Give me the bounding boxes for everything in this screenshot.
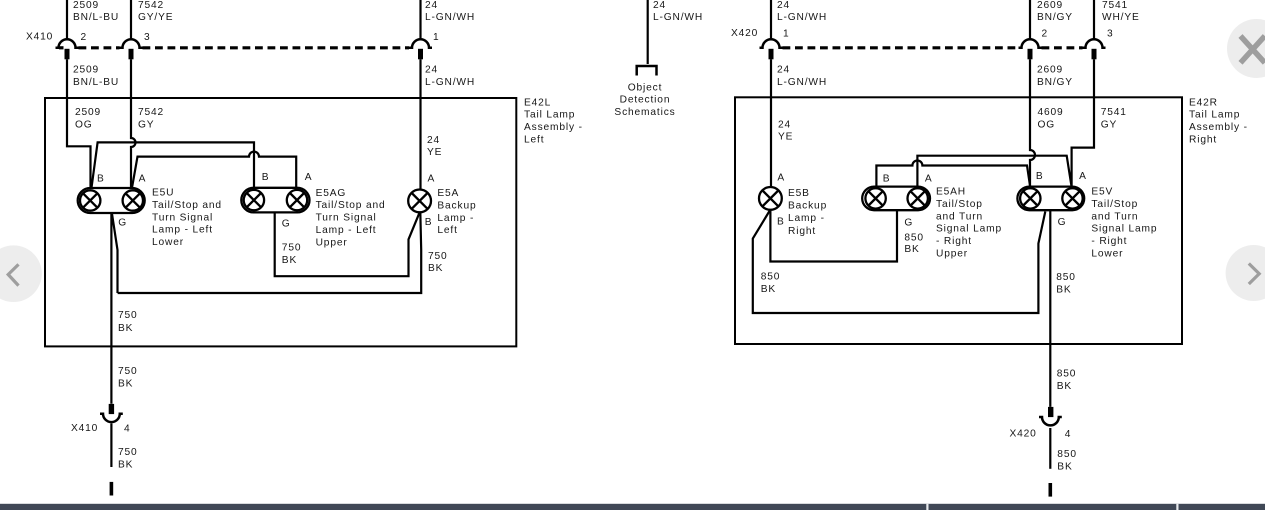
svg-text:4609: 4609	[1038, 107, 1064, 118]
svg-text:1: 1	[433, 32, 440, 43]
svg-text:A: A	[428, 174, 436, 185]
svg-text:24: 24	[425, 0, 438, 11]
svg-text:GY: GY	[138, 120, 154, 131]
svg-text:E5A: E5A	[437, 188, 459, 199]
svg-text:2509: 2509	[73, 0, 99, 11]
svg-text:Assembly -: Assembly -	[524, 122, 583, 133]
svg-text:Lower: Lower	[1091, 249, 1123, 260]
svg-text:BK: BK	[428, 263, 443, 274]
svg-text:E5AH: E5AH	[936, 187, 966, 198]
connector X420 pin 2 terminal	[1028, 49, 1033, 60]
connector X410 pin 3 terminal	[129, 49, 134, 60]
svg-text:24: 24	[777, 0, 790, 11]
svg-text:Schematics: Schematics	[614, 107, 675, 118]
svg-text:G: G	[1058, 217, 1067, 228]
svg-text:850: 850	[1057, 449, 1077, 460]
svg-text:Lamp - Left: Lamp - Left	[316, 225, 377, 236]
svg-text:750: 750	[118, 366, 138, 377]
svg-text:L-GN/WH: L-GN/WH	[777, 12, 827, 23]
svg-text:A: A	[139, 173, 147, 184]
svg-text:B: B	[425, 217, 433, 228]
svg-text:GY/YE: GY/YE	[138, 12, 173, 23]
svg-text:BN/L-BU: BN/L-BU	[73, 77, 119, 88]
wire circuit 7542 from top to X410 pin 3	[130, 0, 132, 40]
svg-text:BK: BK	[1057, 462, 1072, 473]
wire E5U pin G down through box to X410 pin 4	[110, 213, 112, 404]
connector X420 pin 1 terminal	[769, 49, 774, 60]
svg-text:2: 2	[81, 32, 88, 43]
svg-text:BK: BK	[118, 379, 133, 390]
svg-text:7541: 7541	[1102, 0, 1128, 11]
svg-text:750: 750	[118, 447, 138, 458]
svg-text:X420: X420	[1010, 428, 1037, 439]
svg-text:Left: Left	[524, 134, 544, 145]
svg-text:24: 24	[427, 135, 440, 146]
svg-text:Tail Lamp: Tail Lamp	[1189, 110, 1240, 121]
svg-text:850: 850	[761, 272, 781, 283]
svg-text:750: 750	[118, 310, 138, 321]
svg-text:BK: BK	[904, 244, 919, 255]
svg-text:Detection: Detection	[620, 95, 671, 106]
wire E5U pin G branch to ground bus	[112, 213, 118, 294]
svg-text:X410: X410	[71, 423, 98, 434]
connector X410 dashed boundary	[79, 46, 120, 49]
off-page connector to Object Detection Schematics	[637, 66, 657, 76]
svg-text:L-GN/WH: L-GN/WH	[425, 77, 475, 88]
lamp E5V Tail/Stop and Turn Signal Lamp - Right Lower	[1017, 187, 1084, 211]
svg-text:YE: YE	[427, 147, 442, 158]
svg-text:B: B	[1036, 171, 1044, 182]
svg-text:2: 2	[1042, 29, 1049, 40]
svg-text:E42L: E42L	[524, 97, 551, 108]
wire 4609 OG into box, hop, to E5V pin B	[1030, 59, 1035, 187]
wire 7541 GY into box to E5V pin A	[1072, 59, 1094, 187]
wire below X410 pin 4	[110, 424, 112, 468]
connector X410 pin 2 socket	[56, 39, 79, 48]
wire circuit 24 from top to X420 pin 1	[770, 0, 772, 40]
svg-text:Turn Signal: Turn Signal	[152, 212, 213, 223]
wire E5B pin B to E5AH pin G	[770, 210, 897, 262]
connector X420 pin 1 socket	[760, 39, 783, 48]
svg-text:X420: X420	[731, 28, 758, 39]
svg-text:B: B	[262, 172, 270, 183]
svg-text:Tail/Stop: Tail/Stop	[1091, 199, 1138, 210]
svg-text:A: A	[1079, 171, 1087, 182]
svg-text:BK: BK	[118, 460, 133, 471]
svg-text:A: A	[925, 174, 933, 185]
bottom toolbar	[0, 504, 1265, 510]
svg-text:Upper: Upper	[316, 237, 348, 248]
lamp E5AH Tail/Stop and Turn Signal Lamp - Right Upper	[862, 187, 930, 211]
svg-text:7542: 7542	[138, 107, 164, 118]
svg-text:GY: GY	[1101, 120, 1117, 131]
wire E5A pin B to E5AG pin G	[275, 212, 420, 276]
lamp E5U Tail/Stop and Turn Signal Lamp - Left Lower	[78, 188, 145, 213]
svg-text:24: 24	[653, 0, 666, 11]
svg-text:G: G	[118, 218, 127, 229]
svg-text:2509: 2509	[73, 65, 99, 76]
svg-text:B: B	[883, 174, 891, 185]
wire 24 YE into box to E5B pin A	[770, 59, 772, 187]
svg-text:2609: 2609	[1037, 65, 1063, 76]
svg-text:X410: X410	[26, 32, 53, 43]
wire 24 YE into box to E5A pin A	[419, 59, 421, 190]
wire E5AH pin A to E5V pin A	[917, 156, 1071, 187]
lamp E5AG Tail/Stop and Turn Signal Lamp - Left Upper	[241, 188, 309, 213]
svg-text:E5U: E5U	[152, 188, 174, 199]
svg-text:B: B	[97, 173, 105, 184]
svg-text:Tail/Stop and: Tail/Stop and	[316, 200, 386, 211]
svg-text:Right: Right	[1189, 134, 1217, 145]
svg-text:and Turn: and Turn	[1091, 211, 1138, 222]
lamp E5B Backup Lamp - Right	[759, 187, 782, 210]
svg-text:Tail Lamp: Tail Lamp	[524, 110, 575, 121]
connector X420 pin 2 socket	[1019, 39, 1042, 48]
svg-text:E5B: E5B	[788, 188, 810, 199]
svg-text:850: 850	[1057, 369, 1077, 380]
wire circuit 24 middle branch	[647, 0, 649, 64]
connector X420 pin 4 socket	[1039, 417, 1062, 425]
svg-text:L-GN/WH: L-GN/WH	[425, 12, 475, 23]
svg-text:G: G	[904, 218, 913, 229]
connector X420 pin 3 socket	[1083, 39, 1106, 48]
svg-text:E42R: E42R	[1189, 97, 1218, 108]
wire off-page dash	[110, 482, 114, 496]
svg-text:7541: 7541	[1101, 107, 1127, 118]
svg-text:and Turn: and Turn	[936, 211, 983, 222]
svg-text:A: A	[305, 172, 313, 183]
svg-text:L-GN/WH: L-GN/WH	[653, 12, 703, 23]
connector X420 dashed boundary	[783, 46, 1019, 49]
wire circuit 2609 from top to X420 pin 2	[1029, 0, 1031, 40]
svg-text:E5AG: E5AG	[316, 188, 347, 199]
svg-text:Turn Signal: Turn Signal	[316, 213, 377, 224]
svg-text:4: 4	[124, 424, 131, 435]
svg-text:Object: Object	[628, 82, 663, 93]
connector X410 pin 4 terminal	[109, 404, 114, 414]
close button	[1227, 19, 1265, 78]
svg-text:Assembly -: Assembly -	[1189, 122, 1248, 133]
connector X410 pin 2 terminal	[65, 49, 70, 60]
svg-text:BK: BK	[1057, 381, 1072, 392]
svg-text:B: B	[777, 216, 785, 227]
wire off-page dash right	[1049, 483, 1053, 497]
svg-text:Signal Lamp: Signal Lamp	[1091, 224, 1157, 235]
wire E5U pin A to E5AG pin A with hop	[132, 152, 296, 189]
svg-text:BK: BK	[1056, 285, 1071, 296]
svg-text:Right: Right	[788, 226, 816, 237]
svg-text:A: A	[777, 172, 785, 183]
svg-text:OG: OG	[1038, 120, 1056, 131]
lamp E5A Backup Lamp - Left	[408, 190, 431, 213]
wire circuit 7541 from top to X420 pin 3	[1093, 0, 1095, 40]
wire circuit 24 from top to X410 pin 1	[419, 0, 421, 40]
svg-text:Tail/Stop: Tail/Stop	[936, 199, 983, 210]
wire 7542 GY into box, hop over wire at y142, to E5U pin A	[131, 59, 136, 188]
svg-text:24: 24	[425, 65, 438, 76]
wire E5AH pin B to E5V pin B with hop	[876, 161, 1030, 187]
svg-text:Signal Lamp: Signal Lamp	[936, 224, 1002, 235]
svg-text:Left: Left	[437, 225, 457, 236]
svg-text:Upper: Upper	[936, 249, 968, 260]
wire E5V pin G down through box to X420 pin 4	[1049, 210, 1051, 407]
svg-text:7542: 7542	[138, 0, 164, 11]
svg-text:750: 750	[282, 243, 302, 254]
svg-text:Lamp - Left: Lamp - Left	[152, 225, 213, 236]
svg-text:OG: OG	[75, 120, 93, 131]
svg-text:Lamp -: Lamp -	[437, 213, 474, 224]
svg-text:24: 24	[778, 119, 791, 130]
svg-text:850: 850	[904, 232, 924, 243]
E42L component box	[45, 98, 516, 346]
wire E5U pin B to E5AG pin B	[91, 142, 254, 188]
connector X410 pin 1 terminal	[418, 49, 423, 60]
connector X420 pin 3 terminal	[1092, 49, 1097, 60]
connector X410 pin 4 socket	[100, 414, 123, 422]
svg-text:Backup: Backup	[788, 201, 827, 212]
svg-text:L-GN/WH: L-GN/WH	[777, 77, 827, 88]
svg-text:Tail/Stop and: Tail/Stop and	[152, 200, 222, 211]
connector X420 pin 4 terminal	[1048, 407, 1053, 417]
svg-text:- Right: - Right	[1091, 236, 1127, 247]
svg-text:Lamp -: Lamp -	[788, 213, 825, 224]
svg-text:E5V: E5V	[1091, 187, 1113, 198]
E42R component box	[735, 97, 1182, 344]
svg-text:BK: BK	[282, 255, 297, 266]
svg-text:1: 1	[783, 29, 790, 40]
svg-text:G: G	[282, 219, 291, 230]
svg-text:BN/GY: BN/GY	[1037, 77, 1073, 88]
svg-text:BN/GY: BN/GY	[1037, 12, 1073, 23]
svg-text:2509: 2509	[75, 107, 101, 118]
wire 2509 OG into box to E5U pin B	[67, 59, 91, 188]
svg-text:3: 3	[144, 32, 151, 43]
nav next button	[1226, 245, 1265, 301]
svg-text:2609: 2609	[1037, 0, 1063, 11]
connector X410 pin 3 socket	[120, 39, 143, 47]
nav previous button	[0, 245, 42, 302]
svg-text:WH/YE: WH/YE	[1102, 12, 1140, 23]
svg-text:Lower: Lower	[152, 237, 184, 248]
svg-text:YE: YE	[778, 132, 793, 143]
svg-text:850: 850	[1056, 272, 1076, 283]
svg-text:Backup: Backup	[437, 200, 476, 211]
svg-text:24: 24	[777, 65, 790, 76]
svg-text:BK: BK	[761, 284, 776, 295]
wire E5B pin B to ground bus to E5V pin G	[753, 211, 1046, 314]
svg-text:BK: BK	[118, 323, 133, 334]
connector X410 pin 1 socket	[409, 39, 432, 48]
svg-text:3: 3	[1107, 29, 1114, 40]
wire below X420 pin 4	[1049, 428, 1051, 469]
svg-text:4: 4	[1065, 429, 1072, 440]
wire E5A pin B down to ground bus	[118, 212, 422, 294]
svg-text:- Right: - Right	[936, 236, 972, 247]
wire circuit 2509 from top to X410 pin 2	[66, 0, 68, 40]
svg-text:BN/L-BU: BN/L-BU	[73, 12, 119, 23]
svg-text:750: 750	[428, 251, 448, 262]
